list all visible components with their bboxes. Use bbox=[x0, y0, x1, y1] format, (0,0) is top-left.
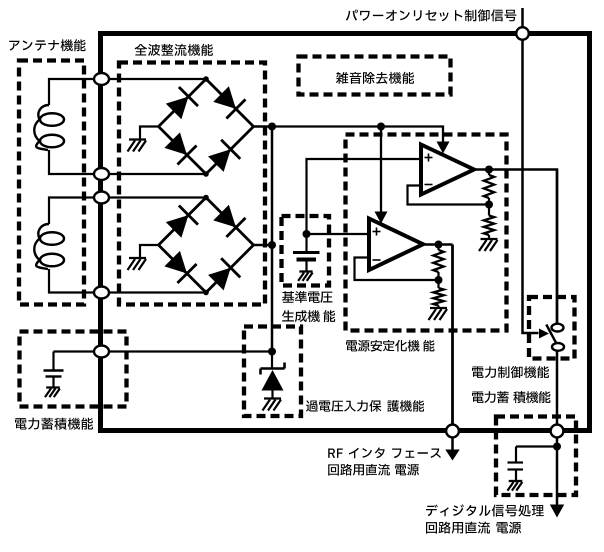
diode D1d (lower-right edge) bbox=[208, 149, 231, 172]
wire U1 divider top bbox=[488, 170, 490, 176]
label: power-on reset control signal bbox=[346, 9, 517, 21]
pin P6 (power-on-reset) bbox=[516, 27, 529, 40]
wire U1 output bbox=[474, 170, 557, 324]
reference voltage generation box (dashed) bbox=[282, 216, 330, 286]
pin P4 (antenna 2b) bbox=[94, 287, 109, 299]
wire U1 - feedback bbox=[408, 186, 490, 205]
IC chip boundary bbox=[101, 34, 590, 431]
op-amp U2 bbox=[369, 219, 423, 271]
capacitor C3 (right storage) bbox=[515, 447, 517, 462]
ground (C1) bbox=[299, 270, 312, 272]
wire bridge1 left to ground bbox=[140, 127, 159, 140]
arrow POR to switch bbox=[539, 329, 549, 339]
label: digital signal processing (line1) bbox=[426, 504, 544, 516]
diode D2d (lower-right edge) bbox=[208, 268, 231, 291]
wire antenna coil1 top bbox=[49, 79, 94, 105]
ground (R4) bbox=[430, 307, 447, 309]
label: noise removal function bbox=[336, 72, 414, 84]
diode D2b (upper-left edge) bbox=[166, 215, 189, 238]
wire pin5 to storage cap bbox=[54, 350, 94, 352]
node bus junction 1 bbox=[268, 123, 276, 131]
diode bridge D1 frame bbox=[159, 79, 254, 174]
node U1 output bbox=[485, 166, 493, 174]
pin P7 (RF DC out) bbox=[446, 425, 459, 438]
ground (R2) bbox=[481, 238, 498, 240]
resistor R2 bbox=[484, 216, 494, 236]
diode bridge D2 frame bbox=[159, 198, 254, 293]
resistor R1 bbox=[484, 175, 494, 198]
ground (ZD1) bbox=[264, 397, 281, 399]
wire RF output bbox=[451, 438, 454, 450]
power stabilization function box (dashed) bbox=[346, 135, 507, 331]
noise removal function box (dashed) bbox=[299, 57, 451, 95]
node bus junction 2 bbox=[268, 241, 276, 249]
wire power-on-reset control line bbox=[523, 8, 539, 333]
op-amp U1 bbox=[421, 145, 474, 195]
wire antenna coil2 bottom bbox=[49, 269, 94, 293]
inductor coil L2 bbox=[34, 224, 49, 269]
node R1-R2 junction bbox=[485, 201, 493, 209]
wire antenna coil1 bottom bbox=[49, 150, 94, 174]
arrow digital DC output bbox=[550, 505, 564, 518]
resistor R3 bbox=[433, 250, 443, 272]
label: overvoltage input protection bbox=[306, 400, 424, 412]
wire bridge2 output to bus bbox=[254, 244, 273, 247]
pin P5 (storage/protection) bbox=[94, 346, 109, 358]
pin P3 (antenna 2a) bbox=[94, 192, 109, 204]
diode D2a (lower-left edge) bbox=[164, 251, 187, 274]
wire bridge2 left to ground bbox=[140, 245, 159, 258]
label: RF interface (line1) bbox=[328, 448, 441, 459]
wire U2 output bbox=[423, 243, 453, 246]
wire ref to op-amp U1 + input bbox=[307, 159, 422, 234]
label: power storage function (right) bbox=[472, 391, 550, 403]
resistor R4 bbox=[433, 288, 443, 306]
wire digital output bbox=[556, 447, 559, 507]
wire digital pin to node bbox=[556, 438, 559, 447]
wire pin1 to bridge1 top bbox=[110, 78, 207, 80]
arrow supply into op-amp U2 bbox=[375, 212, 388, 224]
diode D2c (upper-right edge) bbox=[213, 205, 236, 228]
ground (bridge1) bbox=[129, 138, 146, 140]
label: power storage function (left) bbox=[15, 418, 93, 430]
power storage box left (dashed) bbox=[20, 332, 127, 407]
label: reference voltage (line2) bbox=[282, 310, 335, 322]
label: digital signal processing (line2) bbox=[426, 522, 521, 534]
wire node to C3 bbox=[516, 445, 557, 447]
node reference voltage bbox=[303, 230, 311, 238]
wire ref to op-amp U2 + input bbox=[307, 233, 370, 235]
wire pin4 to bridge2 bottom bbox=[110, 291, 207, 293]
power storage box right (dashed) bbox=[496, 417, 576, 496]
capacitor C1 (reference) bbox=[305, 234, 307, 251]
antenna function box (dashed) bbox=[19, 61, 84, 305]
wire bus to stabilizer bbox=[272, 127, 443, 144]
wire bridge1 output to bus bbox=[254, 125, 273, 128]
node R3-R4 junction bbox=[435, 276, 443, 284]
wire U2 output down to RF pin bbox=[451, 245, 454, 425]
wire supply to op-amp U2 bbox=[380, 127, 382, 214]
wire R4 to ground bbox=[437, 306, 439, 309]
wire R1 to R2 bbox=[488, 198, 490, 216]
zener diode ZD1 bbox=[271, 352, 273, 369]
capacitor C2 (left storage) bbox=[52, 352, 54, 370]
full-wave rectifier function box (dashed) bbox=[119, 63, 265, 305]
pin P1 (antenna 1a) bbox=[94, 73, 109, 85]
node supply tap bbox=[377, 123, 385, 131]
arrow RF DC output bbox=[445, 450, 459, 461]
wire pin5 to protection node bbox=[110, 350, 273, 352]
inductor coil L1 bbox=[34, 105, 49, 150]
wire antenna coil2 top bbox=[49, 198, 94, 225]
wire U2 divider top bbox=[437, 245, 439, 251]
wire pin3 to bridge2 top bbox=[110, 196, 207, 198]
wire R3 to R4 bbox=[437, 272, 439, 288]
node U2 output bbox=[435, 241, 443, 249]
overvoltage protection box (dashed) bbox=[244, 327, 301, 417]
ground (C3) bbox=[509, 480, 523, 482]
ground (bridge2) bbox=[129, 257, 146, 259]
diode D1c (upper-right edge) bbox=[213, 86, 236, 109]
label: power control function bbox=[472, 366, 549, 378]
power control function box (dashed) bbox=[529, 297, 575, 359]
pin P2 (antenna 1b) bbox=[94, 168, 109, 180]
pin P8 (digital DC out) bbox=[551, 425, 564, 438]
ground (C2) bbox=[46, 386, 60, 388]
label: RF interface (line2) bbox=[328, 464, 419, 476]
node protection bbox=[268, 348, 276, 356]
diode D1a (lower-left edge) bbox=[164, 132, 187, 155]
label: antenna function bbox=[9, 39, 85, 51]
node digital supply bbox=[553, 443, 561, 451]
wire U2 - feedback bbox=[355, 258, 439, 281]
wire pin2 to bridge1 bottom bbox=[110, 173, 207, 175]
diode D1b (upper-left edge) bbox=[166, 97, 189, 120]
wire R2 to ground bbox=[488, 235, 490, 239]
label: reference voltage (line1) bbox=[282, 291, 332, 303]
wire bus vertical bbox=[271, 127, 274, 352]
label: full-wave rectifier function bbox=[135, 44, 213, 56]
arrow supply into op-amp U1 bbox=[437, 142, 450, 154]
switch SW1 contacts bbox=[546, 325, 557, 346]
wire switch top bbox=[556, 170, 559, 325]
label: power stabilization function bbox=[346, 340, 434, 352]
wire switch to digital pin bbox=[556, 352, 559, 425]
